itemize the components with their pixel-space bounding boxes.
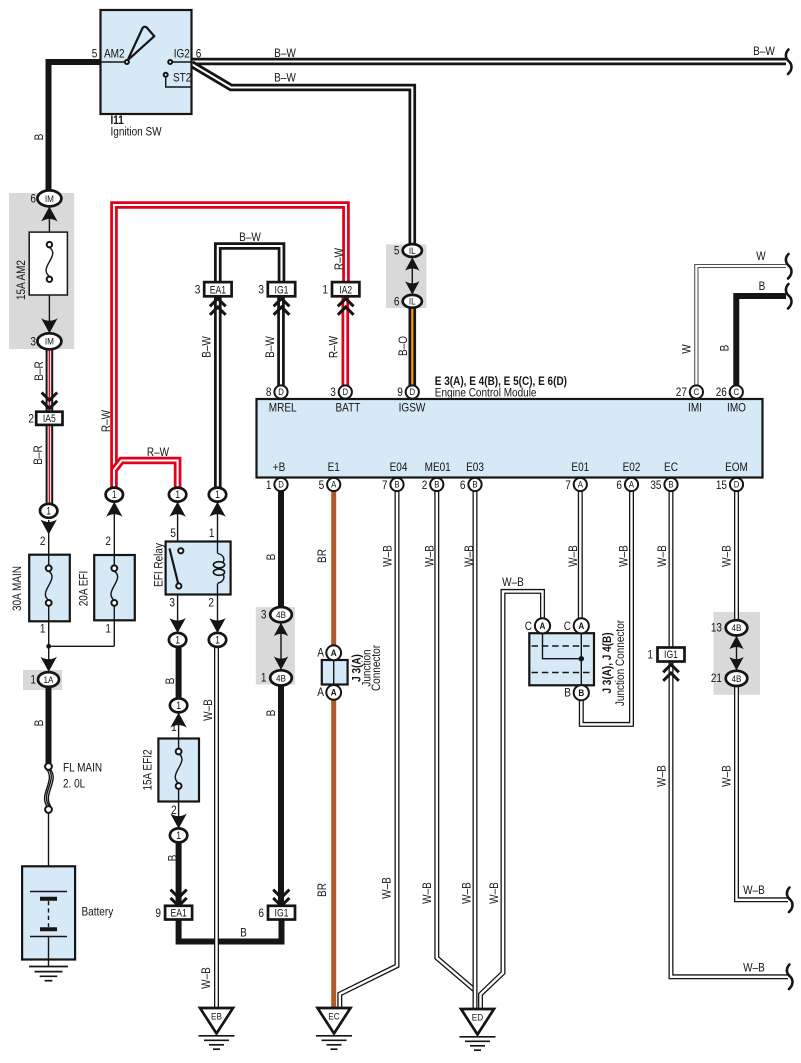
pin 5(A) E1: [319, 460, 341, 492]
svg-text:1: 1: [176, 700, 181, 712]
svg-text:1: 1: [261, 671, 267, 685]
svg-text:5: 5: [92, 47, 98, 61]
svg-text:6: 6: [30, 192, 36, 206]
svg-text:5: 5: [170, 526, 176, 540]
pin 1 of EFI2: [171, 720, 177, 734]
svg-text:W–B: W–B: [420, 882, 434, 904]
dart up below 6(IM): [41, 207, 57, 222]
wire B thick +B to 3(4B): [278, 491, 284, 609]
pin 6(A) E02: [616, 460, 640, 492]
label W-B: [381, 545, 395, 567]
svg-text:6: 6: [616, 478, 622, 492]
label W-B: [743, 961, 765, 975]
svg-text:B–O: B–O: [396, 336, 410, 356]
label W-B: [502, 575, 524, 589]
connector 21(4B): [711, 671, 747, 686]
pin 7(B) E04: [382, 460, 408, 492]
connector 3 IG1 top: [258, 282, 295, 296]
continuation squiggle W-B: [787, 888, 793, 913]
svg-text:W–B: W–B: [423, 545, 437, 567]
svg-text:2: 2: [105, 534, 111, 548]
shading 1A connector: [23, 670, 62, 690]
svg-text:W–B: W–B: [720, 545, 734, 567]
svg-text:15A EFI2: 15A EFI2: [141, 749, 155, 790]
svg-text:B: B: [564, 686, 571, 700]
dart up below it: [209, 502, 225, 517]
svg-text:A: A: [331, 480, 337, 491]
svg-text:ME01: ME01: [425, 460, 451, 474]
label B: [32, 134, 46, 141]
label W-B: [720, 765, 734, 787]
svg-text:1: 1: [209, 526, 215, 540]
svg-text:Connector: Connector: [369, 645, 383, 691]
ground EC: [316, 1008, 352, 1049]
svg-text:B–W: B–W: [274, 71, 296, 85]
wire W-B ECM ME01 to ground ED: [437, 491, 475, 991]
relay pin 1: [209, 526, 215, 540]
connector 1 above fuse EFI2: [170, 698, 187, 712]
dart down below connector: [41, 520, 57, 535]
svg-text:EC: EC: [328, 1012, 339, 1023]
link between IL connectors: [411, 258, 413, 294]
fuse 30A MAIN: [29, 555, 70, 622]
svg-text:IMI: IMI: [688, 401, 702, 415]
label BR: [315, 883, 329, 897]
svg-text:1: 1: [175, 489, 180, 501]
chevron below IA2: [338, 299, 354, 315]
label B-W: [239, 230, 261, 244]
svg-text:15: 15: [716, 478, 727, 492]
label W-B: [201, 699, 215, 721]
connector 2 IA5: [28, 411, 62, 425]
pin C C B labels: [525, 619, 571, 700]
svg-text:3: 3: [169, 596, 175, 610]
svg-text:W: W: [679, 344, 693, 354]
wire B thick EA1 to IG1 bottom run: [179, 919, 282, 942]
svg-text:27: 27: [676, 385, 687, 399]
label R-W: [147, 445, 169, 459]
connector 13(4B): [711, 620, 747, 635]
svg-text:B–W: B–W: [274, 46, 296, 60]
pin 8(D) MREL: [266, 385, 297, 415]
dart up below 13(4B): [729, 636, 743, 650]
connector 3 EA1 top: [195, 282, 232, 296]
svg-text:20A EFI: 20A EFI: [77, 571, 91, 607]
connector 5(IL): [394, 244, 422, 258]
svg-text:D: D: [343, 387, 349, 398]
svg-text:W–B: W–B: [462, 545, 476, 567]
connector 1 above 20A EFI: [106, 488, 123, 502]
svg-text:W–B: W–B: [743, 883, 765, 897]
svg-text:R–W: R–W: [99, 410, 113, 432]
svg-text:W–B: W–B: [201, 699, 215, 721]
svg-text:6: 6: [460, 478, 466, 492]
label B-W: [274, 71, 296, 85]
label W-B: [420, 882, 434, 904]
wire BR J3 to ground EC: [331, 699, 336, 1010]
label B-W: [263, 336, 277, 358]
wire B-W IG1 down to ECM MREL: [277, 296, 285, 386]
svg-text:IGSW: IGSW: [399, 401, 426, 415]
svg-text:1: 1: [175, 634, 180, 646]
svg-text:B: B: [163, 678, 177, 685]
wire B thick fuse EFI2 to EA1: [176, 842, 182, 907]
label B-O: [396, 336, 410, 356]
continuation squiggle B: [786, 284, 792, 309]
ground below battery: [29, 967, 68, 981]
junction wire fuse outputs: [49, 621, 115, 646]
svg-text:D: D: [410, 387, 416, 398]
svg-text:1: 1: [46, 505, 51, 517]
wire B ECM IMO to right edge: [736, 296, 786, 386]
connector row EA1 IG1 IA2 chevrons: [210, 299, 226, 315]
svg-text:B–W: B–W: [753, 44, 775, 58]
svg-text:9: 9: [397, 385, 403, 399]
svg-text:Ignition SW: Ignition SW: [111, 124, 162, 138]
label 15A AM2: [14, 260, 28, 300]
svg-text:2: 2: [40, 534, 46, 548]
svg-text:IL: IL: [409, 246, 416, 257]
label B: [264, 554, 278, 561]
svg-text:B: B: [668, 480, 673, 491]
svg-text:B–W: B–W: [199, 336, 213, 358]
dart down above 1A: [41, 648, 57, 672]
svg-text:W–B: W–B: [743, 961, 765, 975]
chevron double arrow above IA5: [42, 393, 58, 409]
label B: [759, 279, 766, 293]
label W-B: [743, 883, 765, 897]
svg-text:1A: 1A: [44, 675, 54, 686]
label B: [165, 855, 179, 862]
pin 7(A) E01: [565, 460, 589, 492]
svg-text:BR: BR: [315, 883, 329, 897]
connector 6(IL): [394, 295, 422, 309]
label B-R: [31, 445, 45, 465]
wire B-R 3(IM) to IA5: [46, 349, 54, 412]
svg-text:1: 1: [40, 622, 46, 636]
svg-text:1: 1: [266, 478, 272, 492]
dart up below it: [169, 502, 185, 517]
svg-text:15A AM2: 15A AM2: [14, 260, 28, 300]
connector 1(4B): [261, 670, 292, 685]
pin 2 of EFI2: [171, 803, 177, 817]
svg-text:B: B: [32, 720, 46, 727]
svg-text:1: 1: [322, 282, 328, 296]
label B-W: [199, 336, 213, 358]
connector 1 below relay pin3: [169, 633, 186, 647]
junction connector J3(A) J4(B) box: [529, 618, 594, 700]
svg-text:R–W: R–W: [147, 445, 169, 459]
svg-text:IG1: IG1: [664, 649, 678, 661]
svg-text:7: 7: [382, 478, 388, 492]
svg-text:A: A: [331, 648, 337, 659]
dart down above connector: [170, 814, 186, 829]
svg-text:B: B: [240, 926, 247, 940]
svg-text:4B: 4B: [276, 673, 286, 684]
connector 6 IG1: [258, 906, 295, 920]
connector 6(IM): [30, 190, 61, 206]
label B-W: [274, 46, 296, 60]
shading IL connector block: [386, 244, 426, 308]
wire W-B junction connector C(A) to ground ED: [481, 591, 543, 1009]
pin 35(B) EC: [650, 460, 678, 492]
svg-text:A: A: [317, 685, 324, 699]
shading 15A AM2 fuse block: [9, 193, 74, 349]
pin 6 IG2: [174, 47, 202, 61]
svg-text:E03: E03: [466, 460, 484, 474]
svg-text:1: 1: [171, 720, 177, 734]
connector 1 IA2: [322, 282, 359, 296]
svg-text:A: A: [629, 480, 635, 491]
svg-text:4B: 4B: [732, 623, 742, 634]
EFI relay box: [166, 501, 231, 633]
wire R-W branch to EFI relay connector 1: [114, 461, 178, 490]
svg-text:E01: E01: [571, 460, 589, 474]
label B: [32, 720, 46, 727]
pin ST2: [173, 70, 191, 84]
wire W-B ECM E02 to junction connector B(B): [581, 491, 631, 724]
svg-text:B–R: B–R: [32, 361, 46, 381]
fuse 20A EFI: [94, 501, 135, 646]
wire W-B ECM EC through IG1 to right edge: [671, 491, 788, 977]
svg-text:W–B: W–B: [566, 545, 580, 567]
svg-text:R–W: R–W: [327, 336, 341, 358]
svg-text:W–B: W–B: [199, 967, 213, 989]
svg-text:R–W: R–W: [332, 248, 346, 270]
svg-text:EC: EC: [664, 460, 678, 474]
dart up below 3(4B): [274, 623, 288, 637]
fusible link FL MAIN: [45, 763, 54, 892]
svg-text:B–R: B–R: [31, 445, 45, 465]
wire B-W bridge EA1 to IG1: [218, 246, 282, 283]
svg-text:30A MAIN: 30A MAIN: [10, 566, 24, 611]
svg-text:J 3(A), J 4(B): J 3(A), J 4(B): [600, 632, 614, 693]
pin 9(D) IGSW: [397, 385, 425, 415]
pin 6(B) E03: [460, 460, 484, 492]
svg-text:A: A: [317, 646, 324, 660]
dart up below 5(IL): [405, 257, 419, 271]
ground ED: [460, 1009, 496, 1050]
label W-B: [487, 882, 501, 904]
wire W ECM IMI to right edge: [696, 266, 786, 386]
svg-text:B: B: [759, 279, 766, 293]
label Battery: [82, 905, 114, 919]
svg-text:W–B: W–B: [502, 575, 524, 589]
connector 1 above relay pin5: [169, 488, 186, 502]
svg-text:A: A: [331, 688, 337, 699]
label W-B: [655, 545, 669, 567]
svg-text:MREL: MREL: [269, 401, 297, 415]
pin 1 of 30A MAIN: [40, 622, 46, 636]
svg-text:A: A: [578, 480, 584, 491]
relay pin 2: [208, 596, 214, 610]
svg-text:1: 1: [30, 672, 36, 686]
dart down above 6(IL): [405, 281, 419, 295]
svg-text:8: 8: [266, 385, 272, 399]
dart down above relay output connector left: [169, 618, 185, 633]
svg-text:2. 0L: 2. 0L: [63, 777, 85, 791]
chevron below right IG1: [663, 665, 679, 681]
wire W-B ECM E03 to ground ED: [473, 491, 478, 1009]
wire W-B ECM E04 to ground EC: [340, 491, 397, 1009]
svg-text:B: B: [165, 855, 179, 862]
svg-text:C: C: [694, 387, 700, 398]
wire B-R IA5 to connector 1: [46, 425, 54, 505]
svg-text:3: 3: [330, 385, 336, 399]
svg-text:3: 3: [195, 282, 201, 296]
label W-B: [617, 545, 631, 567]
svg-text:21: 21: [711, 671, 722, 685]
svg-text:2: 2: [422, 478, 428, 492]
svg-text:5: 5: [319, 478, 325, 492]
svg-text:W–B: W–B: [720, 765, 734, 787]
ground EB: [199, 1008, 235, 1049]
svg-text:1: 1: [112, 489, 117, 501]
svg-text:E04: E04: [390, 460, 408, 474]
label B: [163, 678, 177, 685]
connector 1(1A): [30, 672, 59, 687]
svg-text:ST2: ST2: [173, 70, 191, 84]
svg-text:EA1: EA1: [170, 907, 186, 919]
svg-text:1: 1: [215, 634, 220, 646]
junction connector J3(A) on BR wire: [322, 645, 348, 699]
svg-text:4B: 4B: [732, 674, 742, 685]
svg-text:W–B: W–B: [655, 765, 669, 787]
label R-W: [332, 248, 346, 270]
svg-text:EA1: EA1: [210, 284, 226, 296]
connector 1 on B-R wire: [40, 504, 57, 518]
svg-text:IG1: IG1: [275, 284, 289, 296]
svg-text:D: D: [278, 480, 284, 491]
pin 1(D) +B: [266, 460, 288, 492]
fuse 15A AM2: [29, 206, 67, 341]
label B: [264, 710, 278, 717]
label B-R: [32, 361, 46, 381]
svg-text:B: B: [394, 480, 399, 491]
svg-text:D: D: [278, 387, 284, 398]
link between 4B connectors: [280, 623, 282, 670]
relay pin 5: [170, 526, 176, 540]
svg-text:W–B: W–B: [381, 545, 395, 567]
wire B-O 6(IL) down to ECM IGSW: [408, 306, 416, 386]
svg-text:B–W: B–W: [239, 230, 261, 244]
svg-text:B–W: B–W: [263, 336, 277, 358]
label W-B: [199, 967, 213, 989]
connector 3(4B): [261, 607, 292, 622]
svg-text:B: B: [578, 688, 584, 699]
pin 26(C) IMO: [716, 385, 747, 415]
label J 3(A) Junction Connector: [350, 645, 383, 691]
label W-B: [423, 545, 437, 567]
svg-text:2: 2: [208, 596, 214, 610]
svg-text:E1: E1: [328, 460, 340, 474]
label W-B: [655, 765, 669, 787]
pin 3(D) BATT: [330, 385, 360, 415]
connector 3(IM): [30, 333, 61, 349]
svg-text:D: D: [734, 480, 740, 491]
continuation squiggle W-B: [787, 965, 793, 990]
svg-text:A: A: [540, 621, 546, 632]
pin 2(B) ME01: [422, 460, 451, 492]
svg-text:BATT: BATT: [336, 401, 361, 415]
svg-text:IG1: IG1: [275, 907, 289, 919]
pin 27(C) IMI: [676, 385, 703, 415]
label B-W right: [753, 44, 775, 58]
label 30A MAIN: [10, 566, 24, 611]
connector 1 IG1 right: [647, 648, 684, 662]
wire W-B ECM E01 to junction connector C(A): [578, 491, 583, 620]
label W-B: [462, 545, 476, 567]
svg-text:6: 6: [196, 47, 202, 61]
wire B-W EA1 down to relay coil connector 1: [214, 296, 222, 489]
svg-text:2: 2: [28, 411, 34, 425]
svg-text:IA5: IA5: [43, 413, 56, 425]
dart up below it: [106, 502, 122, 517]
label W-B: [566, 545, 580, 567]
svg-text:1: 1: [105, 622, 111, 636]
label FL MAIN 2.0L: [63, 761, 102, 791]
ignition switch I11 box: [101, 10, 192, 114]
svg-text:IM: IM: [45, 337, 54, 348]
label 20A EFI: [77, 571, 91, 607]
svg-text:Junction Connector: Junction Connector: [613, 620, 627, 706]
svg-text:A: A: [578, 621, 584, 632]
svg-text:1: 1: [215, 489, 220, 501]
label EFI Relay: [152, 542, 166, 587]
svg-text:C: C: [525, 619, 532, 633]
chevron double arrow above IG1: [273, 890, 289, 906]
svg-text:W–B: W–B: [380, 877, 394, 899]
svg-text:AM2: AM2: [104, 47, 125, 61]
continuation squiggle W: [786, 254, 792, 279]
label W: [679, 344, 693, 354]
wire R-W IA2 down to ECM BATT: [341, 296, 349, 386]
pin A labels of J3: [317, 646, 324, 700]
wire B thick 1A to FL MAIN: [46, 687, 52, 763]
svg-text:BR: BR: [315, 549, 329, 563]
connector 1 below relay pin2: [209, 633, 226, 647]
svg-text:7: 7: [565, 478, 571, 492]
wire B thick relay pin3 to connector 1: [176, 647, 182, 700]
ignition switch internals: [101, 27, 192, 87]
label BR: [315, 549, 329, 563]
svg-text:5: 5: [394, 244, 400, 258]
svg-text:9: 9: [155, 906, 161, 920]
svg-text:4B: 4B: [276, 610, 286, 621]
svg-text:IA2: IA2: [339, 284, 352, 296]
label I11 Ignition SW: [111, 113, 162, 138]
svg-text:1: 1: [647, 648, 653, 662]
svg-text:IM: IM: [45, 194, 54, 205]
svg-text:EOM: EOM: [725, 460, 748, 474]
dart down above 1(4B): [274, 656, 288, 670]
wire B thick 1(4B) down to IG1: [278, 685, 284, 907]
wire R-W loop from connector 1 up over to IA2: [114, 205, 346, 489]
svg-text:26: 26: [716, 385, 727, 399]
label B: [240, 926, 247, 940]
fuse 15A EFI2: [158, 713, 199, 829]
label W-B: [380, 877, 394, 899]
shading 4B connector block left: [256, 607, 295, 684]
svg-text:6: 6: [258, 906, 264, 920]
battery: [22, 866, 75, 966]
chevron below IG1: [274, 299, 290, 315]
svg-text:6: 6: [394, 295, 400, 309]
svg-text:3: 3: [258, 282, 264, 296]
svg-text:IL: IL: [409, 297, 416, 308]
svg-text:+B: +B: [273, 460, 286, 474]
svg-text:B: B: [264, 554, 278, 561]
